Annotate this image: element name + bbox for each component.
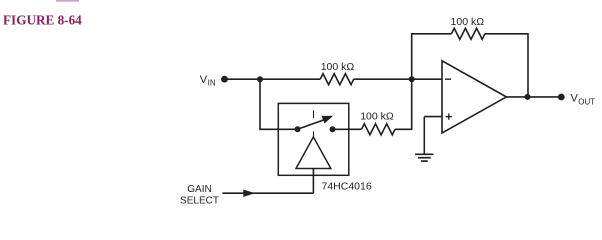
- svg-text:OUT: OUT: [578, 97, 595, 106]
- resistor R1 100 kOhm (series input): [320, 74, 354, 85]
- wire R1 to summing node: [354, 78, 442, 80]
- label 74HC4016: [322, 181, 372, 193]
- svg-text:V: V: [200, 74, 208, 86]
- svg-text:IN: IN: [208, 79, 216, 88]
- svg-text:100 kΩ: 100 kΩ: [360, 110, 394, 122]
- wire node A down to switch: [260, 79, 298, 129]
- svg-text:V: V: [571, 93, 579, 105]
- svg-text:100 kΩ: 100 kΩ: [321, 61, 355, 73]
- noninverting input plus symbol: [446, 114, 452, 120]
- switch right contact: [330, 126, 336, 132]
- switch left contact: [295, 126, 301, 132]
- value label R2 100 kOhm: [360, 110, 394, 122]
- input terminal VIN: [221, 76, 228, 83]
- label GAIN SELECT: [180, 184, 219, 206]
- label VIN: [200, 74, 216, 88]
- wire R2 up to summing node: [395, 79, 412, 129]
- svg-text:GAIN: GAIN: [187, 184, 211, 195]
- figure caption FIGURE 8-64: [3, 12, 82, 27]
- resistor R3 100 kOhm (feedback): [451, 28, 485, 39]
- inverting input minus symbol: [445, 78, 451, 80]
- svg-text:FIGURE 8-64: FIGURE 8-64: [3, 12, 82, 27]
- output terminal VOUT: [558, 94, 565, 101]
- svg-text:74HC4016: 74HC4016: [322, 181, 372, 193]
- svg-text:100 kΩ: 100 kΩ: [451, 16, 485, 28]
- feedback wire right and down to output: [485, 34, 528, 97]
- output wire: [506, 96, 558, 98]
- control buffer triangle: [296, 137, 331, 169]
- value label R1 100 kOhm: [321, 61, 355, 73]
- analog switch U2 box 74HC4016: [278, 103, 349, 175]
- wire switch to R2: [333, 128, 362, 130]
- wire buffer input down: [312, 169, 314, 194]
- node C (output junction): [525, 94, 531, 100]
- ground wire: [423, 117, 425, 154]
- node B (summing junction): [409, 76, 415, 82]
- noninverting input wire: [424, 116, 442, 118]
- ground symbol: [415, 154, 433, 161]
- stray crop mark top: [56, 0, 79, 2]
- op-amp U1: [442, 61, 506, 133]
- arrowhead on GAIN SELECT wire: [243, 190, 255, 197]
- switch arm with arrowhead: [298, 116, 334, 130]
- svg-text:SELECT: SELECT: [180, 195, 219, 206]
- label VOUT: [571, 93, 596, 107]
- value label R3 100 kOhm: [451, 16, 485, 28]
- node A (VIN branch junction): [257, 76, 263, 82]
- GAIN SELECT wire: [222, 192, 313, 194]
- feedback wire up from summing node: [412, 34, 452, 79]
- wire VIN to R1: [225, 78, 321, 80]
- resistor R2 100 kOhm (switched path): [362, 124, 396, 135]
- switch control dashed line: [313, 110, 315, 136]
